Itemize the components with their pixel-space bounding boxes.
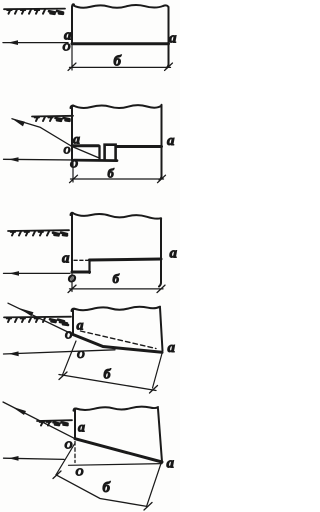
d2 ground hatch dark cluster xyxy=(56,118,70,121)
d5 thick cut line xyxy=(75,439,162,462)
svg-text:а: а xyxy=(168,340,176,356)
svg-text:а: а xyxy=(169,31,177,47)
d3 left extension line xyxy=(71,272,73,292)
d5 block right edge xyxy=(158,409,162,462)
d5 left extension line xyxy=(56,444,75,475)
d2 cut level arrowhead xyxy=(9,157,19,162)
d1 dimension tick right xyxy=(165,63,173,71)
d3 tool motion arrow line xyxy=(4,272,71,274)
d4 left extension line xyxy=(63,341,77,375)
d2 trajectory line xyxy=(12,119,98,158)
d4 block right edge xyxy=(160,308,163,351)
d2 tool square xyxy=(105,145,116,160)
d4 dimension line xyxy=(59,375,156,391)
d3 ground surface line xyxy=(8,229,69,232)
d2 cut level thick part under tool xyxy=(74,159,117,162)
d5 dimension tick right xyxy=(144,503,152,511)
d3 dashed level line xyxy=(74,259,88,261)
d2 thick surface line right xyxy=(116,145,162,148)
d5 block left edge xyxy=(74,408,77,438)
svg-text:О: О xyxy=(65,331,72,342)
d2 cut level arrow line xyxy=(4,159,116,160)
d4 tool motion arrow line xyxy=(4,350,116,354)
d3 ground hatch dark cluster xyxy=(53,233,67,236)
d3 dimension tick right xyxy=(157,285,165,293)
d5 dimension tick left xyxy=(53,471,61,479)
d3 step wall xyxy=(88,260,90,273)
d1 ground surface line xyxy=(4,8,65,11)
d1 thick cut line xyxy=(72,42,169,45)
d5 baseline to corner xyxy=(69,464,163,466)
d4 dimension tick right xyxy=(150,386,158,394)
svg-text:а: а xyxy=(78,421,85,436)
d2 ground surface line xyxy=(32,115,73,118)
d2 block left edge xyxy=(71,106,74,161)
svg-text:а: а xyxy=(62,251,70,267)
d4 block wavy top xyxy=(74,307,160,310)
d1 ground hatch ticks xyxy=(9,10,46,14)
d4 ground hatch dark cluster xyxy=(50,319,68,325)
d3 block right edge xyxy=(159,219,161,287)
svg-text:б: б xyxy=(104,368,112,383)
d2 cut face wall xyxy=(98,146,100,160)
d1 arrowhead xyxy=(8,40,18,45)
d1 tool motion arrow line xyxy=(3,42,68,44)
d2 dimension tick left xyxy=(70,175,78,183)
svg-text:О: О xyxy=(70,159,78,171)
d5 tool motion arrow line xyxy=(4,458,65,459)
d3 block left edge xyxy=(71,213,74,272)
svg-text:О: О xyxy=(65,440,73,452)
svg-text:О: О xyxy=(64,147,71,157)
svg-text:б: б xyxy=(108,167,115,181)
d4 dimension tick left xyxy=(59,372,67,380)
d3 dimension tick left xyxy=(68,285,76,293)
d3 dimension line xyxy=(70,288,164,290)
svg-text:О: О xyxy=(63,42,71,54)
svg-text:О: О xyxy=(77,350,85,361)
d3 arrowhead xyxy=(9,271,19,276)
d5 trajectory arrowhead xyxy=(12,407,27,416)
d1 block wavy top xyxy=(73,5,169,8)
svg-text:а: а xyxy=(77,318,84,333)
d5 ground hatch dark cluster xyxy=(54,422,68,425)
d2 thick old surface line xyxy=(72,144,99,147)
svg-text:б: б xyxy=(103,480,111,496)
d3 ground hatch ticks xyxy=(12,231,49,235)
d2 dimension tick right xyxy=(158,175,166,183)
svg-text:а: а xyxy=(167,133,175,149)
d4 ground hatch ticks xyxy=(8,318,45,322)
d5 block wavy top xyxy=(76,407,158,410)
d5 ground hatch ticks xyxy=(41,421,50,425)
d4 thick cut line xyxy=(73,335,162,353)
d4 right extension line xyxy=(153,351,163,389)
svg-text:а: а xyxy=(170,246,178,262)
d1 block right edge xyxy=(167,7,169,68)
d1 block left edge xyxy=(72,4,74,43)
d2 block wavy top xyxy=(73,105,162,108)
svg-text:О: О xyxy=(68,273,76,285)
d1 dimension line xyxy=(70,66,171,68)
d3 upper thick cut line xyxy=(90,259,162,260)
d2 ground hatch ticks xyxy=(36,117,52,121)
d4 trajectory line xyxy=(8,303,73,334)
d2 block right edge xyxy=(160,105,162,180)
d2 trajectory arrowhead xyxy=(12,119,25,127)
d5 trajectory line xyxy=(3,402,75,439)
svg-text:О: О xyxy=(76,467,84,479)
d5 ground surface line xyxy=(37,419,72,422)
d1 dimension tick left xyxy=(68,63,76,71)
d2 left extension line xyxy=(72,161,74,183)
d4 trajectory arrowhead xyxy=(19,308,34,316)
d2 dimension line xyxy=(71,178,164,180)
d3 lower thick cut line xyxy=(72,271,90,274)
svg-text:б: б xyxy=(114,54,122,70)
d4 dashed original level line xyxy=(81,331,157,349)
d5 right extension line xyxy=(147,462,162,507)
d3 block wavy top xyxy=(73,213,161,219)
d5 dimension line xyxy=(56,475,148,507)
d1 ground hatch dark cluster xyxy=(49,11,63,14)
svg-text:а: а xyxy=(167,456,175,472)
d5 arrowhead xyxy=(9,456,19,461)
svg-text:б: б xyxy=(113,271,120,286)
svg-text:а: а xyxy=(73,133,80,148)
d4 ground surface line xyxy=(4,316,71,319)
d4 block left edge xyxy=(72,309,75,335)
d4 arrowhead xyxy=(9,351,19,356)
d5 dashed vertical from O xyxy=(74,442,76,463)
d1 left extension line xyxy=(71,44,73,71)
